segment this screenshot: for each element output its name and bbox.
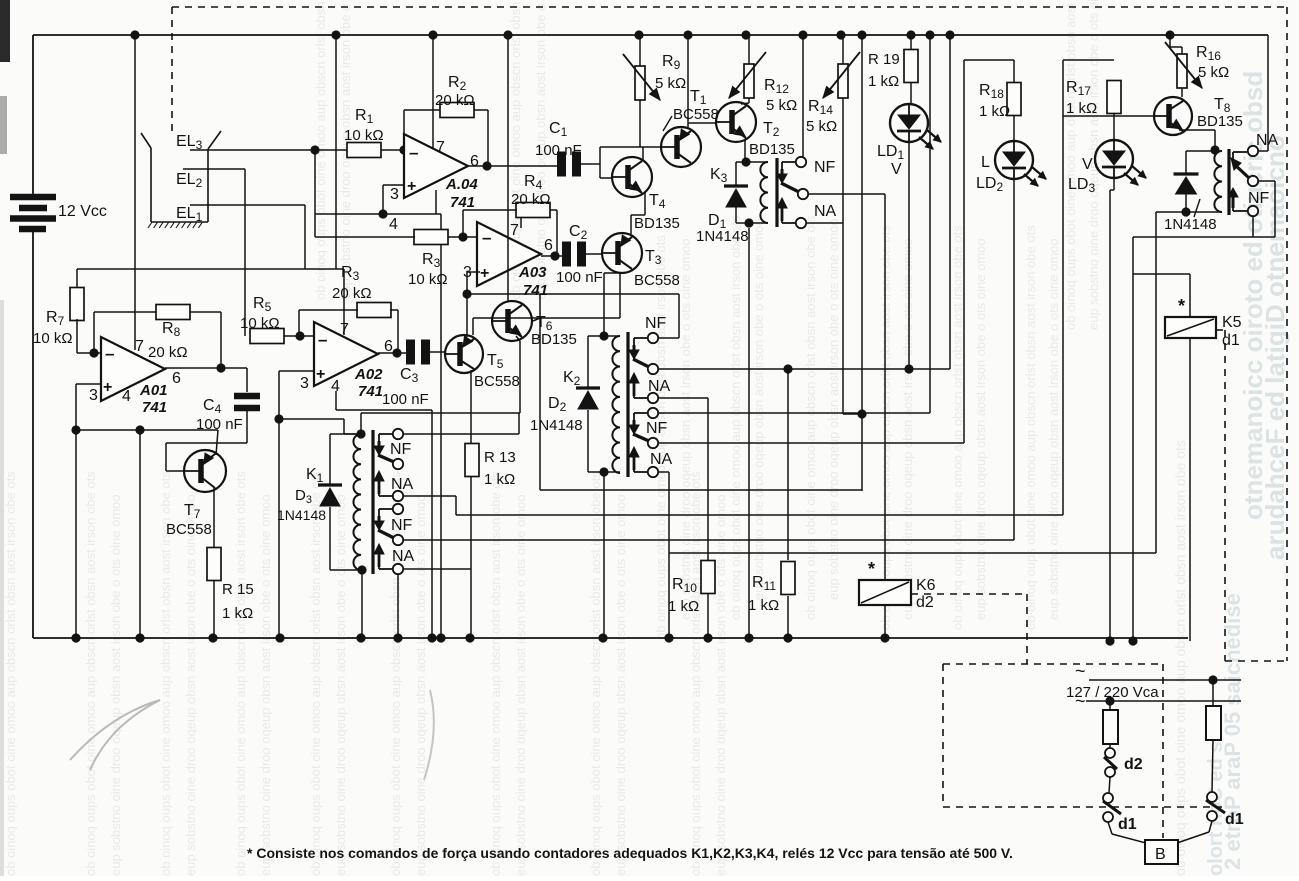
svg-text:1 kΩ: 1 kΩ xyxy=(668,598,699,615)
svg-text:NF: NF xyxy=(646,420,668,437)
svg-text:7: 7 xyxy=(436,139,445,156)
svg-text:NF: NF xyxy=(1248,190,1270,207)
svg-text:ob oinoq oups obot oine omoo a: ob oinoq oups obot oine omoo aup obscn o… xyxy=(83,471,98,876)
svg-text:NF: NF xyxy=(391,517,413,534)
svg-text:5 kΩ: 5 kΩ xyxy=(1198,64,1229,81)
svg-text:BC558: BC558 xyxy=(474,373,520,390)
svg-text:ob oinoq oups obot oine omoo a: ob oinoq oups obot oine omoo aup obscn o… xyxy=(728,215,743,620)
svg-text:1 kΩ: 1 kΩ xyxy=(979,103,1010,120)
svg-text:A01: A01 xyxy=(139,382,168,399)
svg-text:ob oinoq oups obot oine omoo a: ob oinoq oups obot oine omoo aup obscn o… xyxy=(1063,0,1078,330)
svg-text:ob oinoq oups obot oine omoo a: ob oinoq oups obot oine omoo aup obscn o… xyxy=(1023,225,1038,630)
svg-text:eup sobstno oine droo oqeup ob: eup sobstno oine droo oqeup obsn aost ir… xyxy=(108,494,123,876)
svg-text:eup sobstno oine droo oqeup ob: eup sobstno oine droo oqeup obsn aost ir… xyxy=(413,494,428,876)
svg-text:ob oinoq oups obot oine omoo a: ob oinoq oups obot oine omoo aup obscn o… xyxy=(588,471,603,876)
svg-text:A.04: A.04 xyxy=(445,176,478,193)
svg-text:6: 6 xyxy=(544,237,553,254)
svg-text:BD135: BD135 xyxy=(749,141,795,158)
svg-text:* Consiste nos comandos de for: * Consiste nos comandos de força usando … xyxy=(247,845,1013,861)
svg-text:100 nF: 100 nF xyxy=(382,391,429,408)
svg-text:20 kΩ: 20 kΩ xyxy=(148,344,188,361)
svg-text:d2: d2 xyxy=(1124,756,1143,773)
svg-text:ob oinoq oups obot oine omoo a: ob oinoq oups obot oine omoo aup obscn o… xyxy=(1172,440,1188,876)
svg-text:741: 741 xyxy=(358,383,383,400)
svg-text:+: + xyxy=(103,379,112,396)
svg-text:NA: NA xyxy=(648,378,671,395)
svg-text:B: B xyxy=(1155,846,1166,863)
svg-text:3: 3 xyxy=(390,186,399,203)
svg-text:10 kΩ: 10 kΩ xyxy=(408,271,448,288)
svg-text:NA: NA xyxy=(392,548,415,565)
svg-text:4: 4 xyxy=(122,388,131,405)
svg-text:127 / 220 Vca: 127 / 220 Vca xyxy=(1066,684,1159,701)
svg-text:100 nF: 100 nF xyxy=(556,269,603,286)
svg-text:eup sobstno oine droo oqeup ob: eup sobstno oine droo oqeup obsn aost ir… xyxy=(183,494,198,876)
svg-text:BC558: BC558 xyxy=(673,106,719,123)
svg-text:BC558: BC558 xyxy=(634,272,680,289)
svg-text:d1: d1 xyxy=(1225,811,1244,828)
svg-text:eup sobstno oine droo oqeup ob: eup sobstno oine droo oqeup obsn aost ir… xyxy=(333,494,348,876)
svg-text:1N4148: 1N4148 xyxy=(530,417,583,434)
svg-text:+: + xyxy=(316,366,325,383)
svg-text:741: 741 xyxy=(142,399,167,416)
svg-text:BC558: BC558 xyxy=(166,521,212,538)
svg-text:eup sobstno oine droo oqeup ob: eup sobstno oine droo oqeup obsn aost ir… xyxy=(900,238,915,620)
svg-text:R 13: R 13 xyxy=(484,449,516,466)
svg-text:741: 741 xyxy=(450,194,475,211)
svg-text:eup sobstno oine droo oqeup ob: eup sobstno oine droo oqeup obsn aost ir… xyxy=(513,494,528,876)
svg-text:NA: NA xyxy=(814,203,837,220)
svg-text:A02: A02 xyxy=(354,366,383,383)
svg-text:+: + xyxy=(407,178,416,195)
svg-text:+: + xyxy=(480,265,489,282)
svg-text:4: 4 xyxy=(389,216,398,233)
svg-text:eup sobstno oine droo oqeup ob: eup sobstno oine droo oqeup obsn aost ir… xyxy=(613,494,628,876)
svg-text:V: V xyxy=(1082,156,1093,173)
svg-text:–: – xyxy=(318,330,327,349)
svg-text:V: V xyxy=(891,161,902,178)
svg-text:ob oinoq oups obot oine omoo a: ob oinoq oups obot oine omoo aup obscn o… xyxy=(688,471,703,876)
svg-text:ob oinoq oups obot oine omoo a: ob oinoq oups obot oine omoo aup obscn o… xyxy=(803,215,818,620)
svg-text:d2: d2 xyxy=(916,594,934,611)
svg-text:5 kΩ: 5 kΩ xyxy=(655,75,686,92)
svg-text:L: L xyxy=(981,154,990,171)
svg-text:1 kΩ: 1 kΩ xyxy=(868,73,899,90)
svg-text:K5: K5 xyxy=(1222,314,1242,331)
svg-text:1N4148: 1N4148 xyxy=(1164,216,1217,233)
svg-text:1N4148: 1N4148 xyxy=(696,228,749,245)
svg-text:ob oinoq oups obot oine omoo a: ob oinoq oups obot oine omoo aup obscn o… xyxy=(308,471,323,876)
svg-text:ob oinoq oups obot oine omoo a: ob oinoq oups obot oine omoo aup obscn o… xyxy=(488,471,503,876)
svg-text:BD135: BD135 xyxy=(1197,113,1243,130)
svg-text:1 kΩ: 1 kΩ xyxy=(1066,100,1097,117)
svg-text:1 kΩ: 1 kΩ xyxy=(484,471,515,488)
svg-text:BD135: BD135 xyxy=(531,331,577,348)
svg-text:6: 6 xyxy=(172,370,181,387)
svg-text:1N4148: 1N4148 xyxy=(277,507,326,523)
svg-text:ob oinoq oups obot oine omoo a: ob oinoq oups obot oine omoo aup obscn o… xyxy=(3,471,18,876)
svg-text:*: * xyxy=(868,559,875,579)
svg-text:7: 7 xyxy=(510,222,519,239)
svg-text:–: – xyxy=(105,344,114,363)
svg-text:7: 7 xyxy=(135,338,144,355)
svg-text:–: – xyxy=(409,143,418,162)
svg-text:3: 3 xyxy=(300,375,309,392)
svg-text:eup sobstno oine droo oqeup ob: eup sobstno oine droo oqeup obsn aost ir… xyxy=(713,494,728,876)
svg-text:R 19: R 19 xyxy=(868,51,900,68)
svg-text:eup sobstno oine droo oqeup ob: eup sobstno oine droo oqeup obsn aost ir… xyxy=(826,218,841,600)
svg-text:10 kΩ: 10 kΩ xyxy=(33,330,73,347)
svg-text:1 kΩ: 1 kΩ xyxy=(222,605,253,622)
svg-text:R 15: R 15 xyxy=(222,581,254,598)
svg-text:20 kΩ: 20 kΩ xyxy=(511,191,551,208)
svg-text:ob oinoq oups obot oine omoo a: ob oinoq oups obot oine omoo aup obscn o… xyxy=(233,471,248,876)
svg-text:100 nF: 100 nF xyxy=(535,142,582,159)
svg-text:3: 3 xyxy=(89,387,98,404)
svg-text:*: * xyxy=(1178,296,1185,316)
svg-text:NA: NA xyxy=(391,476,414,493)
svg-text:d1: d1 xyxy=(1222,332,1240,349)
svg-text:6: 6 xyxy=(470,153,479,170)
svg-text:eup sobstno oine droo oqeup ob: eup sobstno oine droo oqeup obsn aost ir… xyxy=(751,218,766,600)
svg-text:A03: A03 xyxy=(518,264,547,281)
svg-text:20 kΩ: 20 kΩ xyxy=(435,92,475,109)
svg-text:eup sobstno oine droo oqeup ob: eup sobstno oine droo oqeup obsn aost ir… xyxy=(258,494,273,876)
svg-text:1 kΩ: 1 kΩ xyxy=(748,597,779,614)
svg-text:20 kΩ: 20 kΩ xyxy=(332,285,372,302)
svg-text:NF: NF xyxy=(814,159,836,176)
svg-text:d1: d1 xyxy=(1118,816,1137,833)
svg-text:K6: K6 xyxy=(916,577,936,594)
svg-text:NA: NA xyxy=(650,451,673,468)
svg-text:~: ~ xyxy=(1075,661,1086,681)
svg-text:5 kΩ: 5 kΩ xyxy=(766,97,797,114)
svg-text:10 kΩ: 10 kΩ xyxy=(240,315,280,332)
svg-text:10 kΩ: 10 kΩ xyxy=(344,127,384,144)
svg-text:ob oinoq oups obot oine omoo a: ob oinoq oups obot oine omoo aup obscn o… xyxy=(950,225,965,630)
svg-text:eup sobstno oine droo oqeup ob: eup sobstno oine droo oqeup obsn aost ir… xyxy=(1046,238,1061,620)
svg-text:NF: NF xyxy=(645,315,667,332)
svg-text:–: – xyxy=(482,228,491,247)
svg-text:12 Vcc: 12 Vcc xyxy=(58,203,107,220)
svg-text:741: 741 xyxy=(523,282,548,299)
svg-text:NF: NF xyxy=(390,441,412,458)
svg-text:BD135: BD135 xyxy=(634,215,680,232)
svg-text:5 kΩ: 5 kΩ xyxy=(806,118,837,135)
svg-text:eup sobstno oine droo oqeup ob: eup sobstno oine droo oqeup obsn aost ir… xyxy=(973,238,988,620)
